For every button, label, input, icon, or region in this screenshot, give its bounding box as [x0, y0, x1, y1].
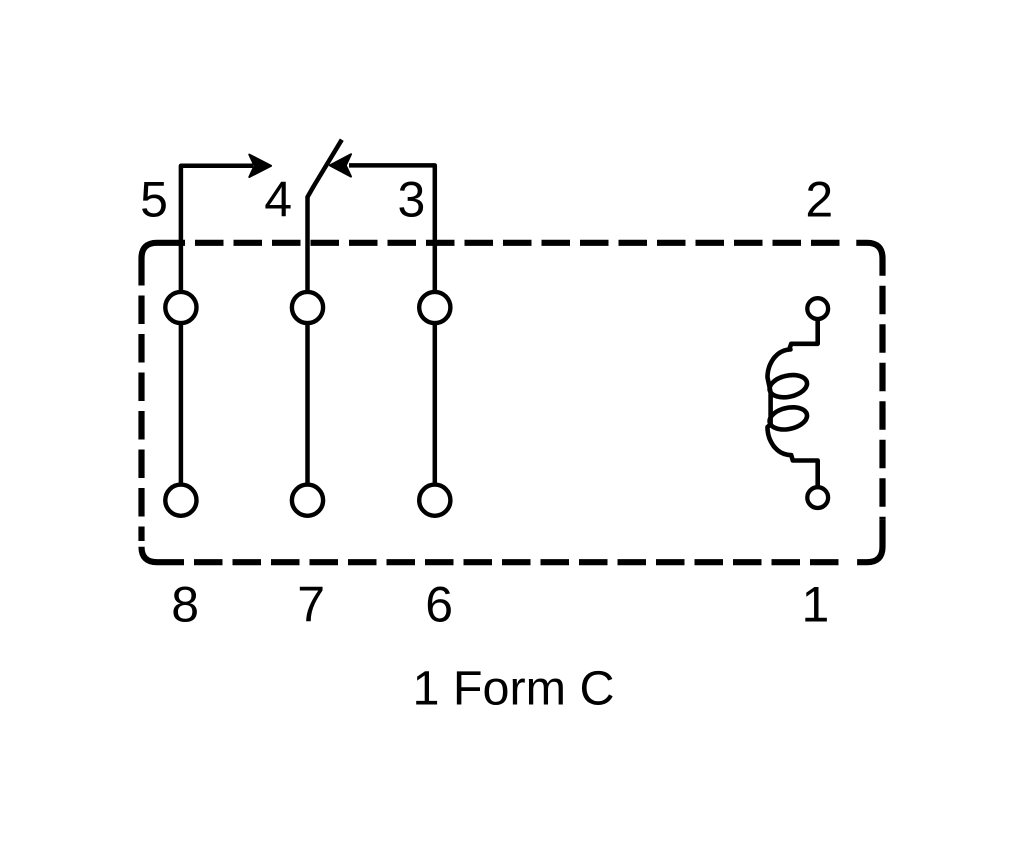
pin 4 wire: vertical + movable switch blade — [308, 140, 342, 292]
svg-text:7: 7 — [297, 577, 325, 633]
relay outline top-right corner (solid) — [856, 243, 882, 276]
svg-text:1 Form C: 1 Form C — [412, 662, 614, 716]
relay outline bottom edge (dashed) — [194, 559, 847, 565]
pin 3 wire: top horizontal + vertical to contact — [349, 165, 435, 291]
wire between pin3/pin6 contacts — [433, 323, 438, 484]
contact circle pin 6 — [419, 485, 450, 516]
relay outline top edge (dashed) — [195, 240, 848, 246]
contact circle pin 4 — [292, 292, 323, 323]
coil terminal circle pin 1 — [807, 487, 828, 508]
pin 5 wire: top horizontal + vertical to contact — [181, 166, 253, 292]
coil terminal circle pin 2 — [807, 298, 828, 319]
contact circle pin 5 — [165, 292, 196, 323]
wire between pin4/pin7 contacts — [305, 323, 310, 484]
contact circle pin 8 — [165, 485, 196, 516]
contact circle pin 7 — [292, 485, 323, 516]
svg-text:4: 4 — [264, 171, 292, 227]
svg-text:1: 1 — [801, 577, 829, 633]
svg-text:3: 3 — [397, 171, 425, 227]
contact circle pin 3 — [419, 292, 450, 323]
relay outline left edge (dashed) — [138, 296, 144, 542]
NO arrowhead (right-pointing, pin 5 side) — [249, 155, 271, 177]
relay outline bottom-left corner (solid) — [142, 547, 185, 563]
relay outline right edge (dashed) — [879, 286, 885, 520]
NC arrowhead (left-pointing, pin 3 side) — [330, 154, 351, 176]
coil winding — [768, 319, 818, 488]
relay outline top-left corner (solid) — [142, 243, 186, 286]
svg-text:8: 8 — [171, 577, 199, 633]
svg-text:6: 6 — [425, 577, 453, 633]
relay outline bottom-right corner (solid) — [857, 520, 882, 562]
svg-text:5: 5 — [140, 171, 168, 227]
svg-text:2: 2 — [805, 171, 833, 227]
wire between pin5/pin8 contacts — [179, 323, 184, 484]
